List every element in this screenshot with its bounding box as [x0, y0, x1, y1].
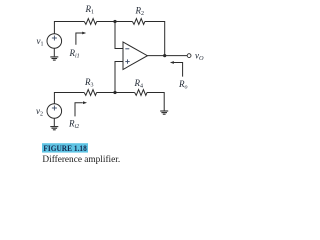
wire top rail v1 corner to R1	[54, 22, 84, 34]
plus sign of v2	[52, 106, 57, 111]
junction node B dot	[113, 91, 116, 94]
wire node A to R2	[115, 21, 132, 23]
junction output node dot	[163, 54, 166, 57]
wire op-amp plus input to node B	[115, 62, 123, 93]
svg-text:FIGURE 1.18: FIGURE 1.18	[43, 143, 87, 153]
resistor R1	[84, 19, 96, 25]
junction node A dot	[113, 20, 116, 23]
figure caption highlight	[42, 143, 88, 152]
svg-text:v2: v2	[36, 106, 43, 118]
plus sign of v1	[52, 36, 57, 41]
svg-text:vO: vO	[195, 51, 204, 63]
source v2 circle	[47, 104, 62, 119]
wire v1 to ground	[53, 48, 55, 56]
ground under v2	[50, 127, 58, 130]
resistor R2	[132, 19, 144, 25]
svg-text:Difference amplifier.: Difference amplifier.	[42, 154, 120, 165]
svg-text:R1: R1	[85, 4, 95, 16]
wire op-amp output	[147, 55, 187, 57]
ground under R4	[160, 111, 168, 114]
Ri2 arrow	[75, 103, 83, 117]
wire R4 to ground corner	[147, 93, 164, 111]
svg-text:v1: v1	[37, 36, 44, 48]
svg-text:R3: R3	[84, 77, 94, 89]
svg-text:Ro: Ro	[178, 79, 188, 91]
terminal vO open circle	[187, 54, 191, 58]
op-amp U1 triangle	[123, 42, 147, 70]
Ri1 arrow	[76, 33, 83, 45]
svg-text:R4: R4	[134, 78, 144, 90]
wire R3 to node B	[97, 92, 115, 94]
svg-text:R2: R2	[135, 6, 145, 18]
svg-text:Ri1: Ri1	[69, 48, 80, 60]
wire node B to R4	[115, 92, 135, 94]
op-amp minus input sign	[125, 48, 129, 50]
resistor R4	[135, 90, 147, 96]
ground under v1	[50, 57, 58, 60]
wire v2 to ground	[53, 118, 55, 126]
resistor R3	[84, 90, 96, 96]
wire R1 to node A	[97, 21, 115, 23]
wire R2 to feedback corner	[145, 22, 165, 56]
op-amp plus input sign	[125, 59, 129, 63]
svg-text:Ri2: Ri2	[68, 119, 79, 131]
source v1 circle	[47, 34, 62, 49]
wire bottom rail v2 corner to R3	[54, 93, 84, 104]
Ro arrow	[174, 63, 183, 77]
wire node A down to op-amp minus input	[115, 22, 123, 49]
